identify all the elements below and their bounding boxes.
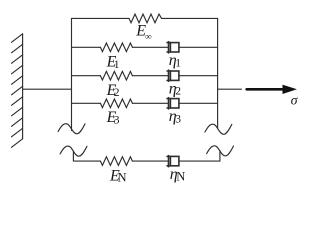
svg-text:1: 1: [175, 57, 181, 69]
spring E-infinity: [129, 14, 162, 23]
dashpot eta2: [167, 70, 179, 81]
svg-text:1: 1: [114, 59, 120, 71]
wire spring E2 to dashpot eta2: [132, 75, 168, 77]
break symbol at right bus bottom: [205, 124, 232, 134]
EN branch: left vertical wire: [73, 151, 100, 161]
wall (fixed support with hatching): [12, 34, 23, 148]
wire right bus to stress arrow: [218, 88, 242, 90]
svg-text:N: N: [176, 170, 185, 184]
EN branch: right wire and vertical: [179, 151, 220, 161]
dashpot eta3: [167, 98, 179, 109]
stress arrow sigma: [247, 85, 296, 93]
right bus wire: [217, 18, 219, 128]
svg-text:∞: ∞: [145, 33, 152, 43]
E1 branch: wire from left bus: [72, 46, 101, 48]
wire wall to left bus: [23, 88, 72, 90]
spring E3: [100, 99, 132, 108]
spring E2: [100, 71, 132, 80]
EN branch: left break symbol: [60, 146, 87, 156]
wire spring EN to dashpot etaN: [132, 160, 168, 162]
svg-text:3: 3: [114, 114, 120, 126]
wire dashpot eta1 to right bus: [179, 46, 218, 48]
E3 branch: wire from left bus: [72, 102, 101, 104]
svg-text:2: 2: [175, 86, 181, 98]
dashpot etaN: [167, 156, 179, 167]
dashpot eta1: [167, 42, 179, 53]
left bus wire: [71, 18, 73, 130]
E2 branch: wire from left bus: [72, 75, 101, 77]
EN branch: right break symbol: [207, 146, 234, 156]
svg-text:2: 2: [114, 87, 120, 99]
wire spring E1 to dashpot eta1: [132, 46, 168, 48]
svg-text:3: 3: [175, 113, 181, 125]
wire dashpot eta3 to right bus: [179, 102, 218, 104]
svg-text:σ: σ: [291, 94, 299, 109]
spring E-infinity branch: right wire: [162, 17, 218, 19]
wire spring E3 to dashpot eta3: [132, 102, 168, 104]
spring E-infinity branch: left wire: [72, 17, 130, 19]
svg-text:N: N: [118, 170, 127, 184]
wire dashpot eta2 to right bus: [179, 75, 218, 77]
spring EN: [100, 157, 132, 166]
spring E1: [100, 43, 132, 52]
break symbol at left bus bottom: [58, 124, 85, 134]
